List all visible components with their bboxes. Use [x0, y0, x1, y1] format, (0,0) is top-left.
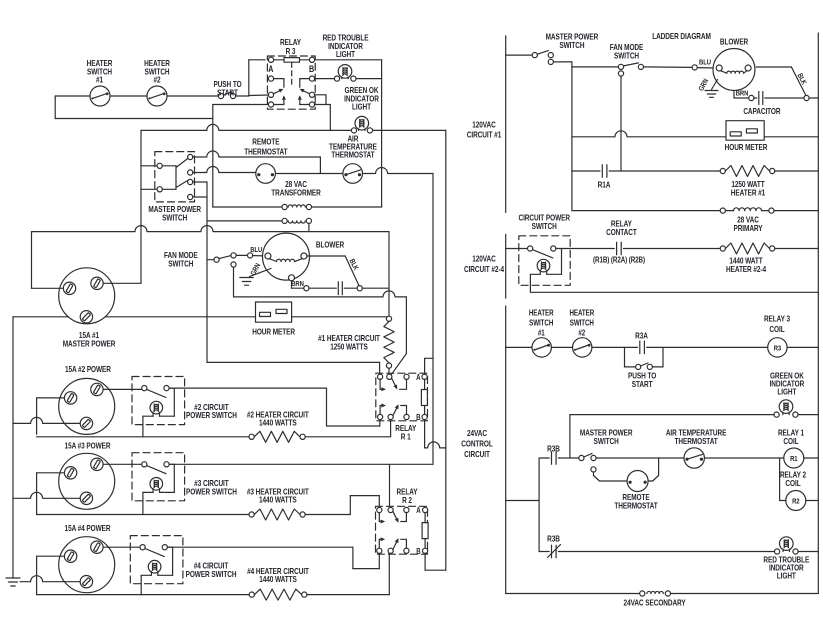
- svg-text:#2: #2: [578, 329, 585, 338]
- label #2 CIRCUIT POWER SWITCH: [186, 402, 237, 420]
- wire: [104, 546, 139, 548]
- svg-text:#2: #2: [153, 75, 160, 85]
- label A: [268, 64, 273, 74]
- label RED TROUBLE INDICATOR LIGHT: [323, 33, 369, 60]
- wire: [405, 297, 407, 354]
- svg-text:THERMOSTAT: THERMOSTAT: [244, 147, 288, 157]
- label LADDER DIAGRAM: [652, 31, 711, 41]
- label MASTER POWER SWITCH (ladder3): [580, 428, 633, 446]
- svg-text:CONTROL: CONTROL: [461, 438, 493, 448]
- wire: [212, 105, 214, 208]
- master power switch (ladder): [506, 51, 572, 65]
- label RELAY CONTACT: [606, 219, 637, 237]
- svg-text:SWITCH: SWITCH: [168, 258, 193, 268]
- relay R1 resistor: [421, 379, 427, 414]
- svg-text:THERMOSTAT: THERMOSTAT: [331, 150, 375, 160]
- svg-text:CONTACT: CONTACT: [606, 227, 637, 237]
- wire: [373, 129, 446, 131]
- svg-text:SWITCH: SWITCH: [614, 50, 639, 60]
- label PUSH TO START: [213, 79, 241, 97]
- svg-text:120VAC: 120VAC: [472, 119, 496, 129]
- power plug 15A #4: [59, 537, 115, 593]
- svg-text:REMOTE: REMOTE: [252, 137, 279, 147]
- ladder right rail: [817, 33, 819, 594]
- power plug 15A #3: [59, 453, 115, 509]
- label PUSH TO START: [628, 371, 656, 389]
- svg-text:1440 WATTS: 1440 WATTS: [259, 574, 297, 584]
- svg-text:PRIMARY: PRIMARY: [733, 223, 762, 233]
- svg-text:THERMOSTAT: THERMOSTAT: [614, 500, 658, 510]
- wire #3 switch output: [170, 463, 433, 465]
- contact R1A rung: [572, 165, 720, 178]
- relay 3 coil R3: [768, 338, 819, 357]
- #1 heater resistor: [384, 316, 394, 368]
- label HEATER SWITCH #2 (ladder): [569, 309, 594, 338]
- wire: [620, 76, 622, 171]
- wire: [275, 157, 343, 174]
- #2 heater resistor: [37, 431, 391, 442]
- heater switch #2: [147, 86, 167, 106]
- wire: [169, 387, 326, 389]
- relay R1 contacts A: [378, 374, 428, 391]
- svg-text:R 1: R 1: [401, 431, 411, 441]
- svg-text:BRN: BRN: [291, 280, 304, 288]
- label B: [309, 64, 314, 74]
- svg-text:POWER SWITCH: POWER SWITCH: [186, 487, 237, 497]
- contact R3B: [539, 452, 579, 465]
- 28 VAC primary rung: [572, 208, 818, 213]
- push to start branch: [625, 347, 664, 369]
- wire long 24v feed: [141, 124, 351, 130]
- wire: [0, 0, 1, 1]
- svg-text:BLOWER: BLOWER: [720, 37, 749, 47]
- heater switch #2 (ladder): [551, 338, 592, 357]
- label FAN MODE SWITCH: [164, 250, 198, 268]
- relay 2 coil R2: [786, 491, 819, 511]
- label (R1B)(R2A)(R2B): [593, 256, 646, 265]
- ground symbol: [6, 578, 20, 586]
- wire BRN: [289, 275, 310, 291]
- svg-text:R3: R3: [774, 345, 782, 353]
- svg-text:R 2: R 2: [402, 495, 412, 505]
- wire: [104, 282, 141, 284]
- ladder left rail seg1: [505, 36, 507, 213]
- label HOUR METER: [725, 142, 768, 152]
- wire: [315, 95, 326, 105]
- wire: [13, 417, 80, 423]
- wire: [13, 316, 256, 318]
- svg-text:LIGHT: LIGHT: [777, 386, 796, 396]
- wire: [37, 473, 64, 515]
- svg-text:LIGHT: LIGHT: [352, 102, 371, 112]
- label RELAY R3: [280, 37, 301, 56]
- svg-text:R3B: R3B: [547, 444, 560, 454]
- svg-text:R1: R1: [790, 455, 798, 463]
- label BRN: [736, 90, 749, 98]
- relay R3 link: [0, 0, 1, 1]
- svg-text:R2: R2: [792, 498, 800, 506]
- svg-text:BRN: BRN: [736, 90, 749, 98]
- svg-text:SWITCH: SWITCH: [532, 221, 557, 231]
- wire: [32, 226, 390, 232]
- wire: [432, 174, 434, 465]
- wire: [315, 59, 382, 61]
- wire: [104, 388, 142, 390]
- svg-text:BLU: BLU: [250, 246, 262, 254]
- wire blower box bottom: [234, 291, 407, 297]
- wire hour meter rung: [572, 131, 726, 137]
- wire: [388, 232, 390, 316]
- wire: [506, 458, 539, 552]
- svg-text:24VAC: 24VAC: [467, 428, 488, 438]
- 1250 watt heater #1: [720, 166, 818, 177]
- wire: [55, 118, 213, 120]
- label 15A #3 POWER: [65, 441, 112, 451]
- svg-text:LIGHT: LIGHT: [777, 571, 796, 581]
- label #2 HEATER CIRCUIT 1440 WATTS: [247, 409, 309, 427]
- red trouble indicator light: [334, 65, 356, 82]
- green ok light (ladder): [570, 400, 818, 417]
- wire: [390, 420, 392, 437]
- relay R3 contacts left: [268, 76, 286, 107]
- fan mode switch: [207, 253, 236, 267]
- green ok indicator light: [351, 116, 372, 133]
- label 1440 WATT HEATER #2-4: [726, 256, 767, 274]
- label HOUR METER: [252, 327, 295, 337]
- label HEATER SWITCH #2: [144, 58, 170, 85]
- label 24VAC SECONDARY: [624, 598, 686, 608]
- label BLK: [795, 72, 807, 86]
- power plug 15A #2: [59, 378, 115, 434]
- label BLOWER: [316, 240, 345, 250]
- svg-text:1250 WATTS: 1250 WATTS: [330, 341, 368, 351]
- label BLU: [699, 59, 711, 67]
- master power switch: [157, 154, 193, 199]
- svg-text:HEATER #2-4: HEATER #2-4: [726, 264, 767, 274]
- 1440 watt heater #2-4: [720, 243, 818, 254]
- label BLOWER: [720, 37, 749, 47]
- wire: [20, 576, 80, 582]
- label HEATER SWITCH #1: [87, 58, 113, 85]
- svg-text:BLK: BLK: [795, 72, 807, 86]
- label REMOTE THERMOSTAT: [244, 137, 288, 157]
- label 1250 WATT HEATER #1: [731, 179, 765, 197]
- air temperature thermostat: [343, 164, 363, 184]
- svg-text:R3B: R3B: [547, 534, 560, 544]
- svg-text:THERMOSTAT: THERMOSTAT: [675, 436, 719, 446]
- heater switch #1: [90, 86, 110, 106]
- label 15A #2 POWER: [65, 364, 112, 374]
- wire: [315, 105, 331, 131]
- relay R3 contacts right: [298, 76, 315, 107]
- wire: [363, 168, 434, 174]
- wire: [13, 492, 80, 498]
- label BLK: [347, 258, 359, 272]
- wire: [206, 182, 208, 362]
- wire: [764, 136, 818, 138]
- wire: [193, 167, 256, 173]
- circuit power switch (ladder) box: [519, 236, 570, 285]
- wire: [207, 362, 380, 374]
- svg-text:LADDER DIAGRAM: LADDER DIAGRAM: [652, 31, 711, 41]
- label CAPACITOR: [743, 106, 781, 116]
- wire: [389, 354, 406, 376]
- relay R2 box: [376, 506, 428, 554]
- svg-text:R3A: R3A: [635, 331, 648, 341]
- remote thermostat: [256, 164, 276, 184]
- svg-text:LIGHT: LIGHT: [336, 49, 355, 59]
- svg-text:B: B: [309, 64, 314, 74]
- svg-text:HEATER: HEATER: [529, 309, 554, 318]
- label MASTER POWER SWITCH: [546, 32, 599, 50]
- hour meter: [256, 302, 292, 322]
- wire: [327, 388, 380, 426]
- label B: [416, 413, 420, 422]
- fan mode switch (ladder): [572, 63, 644, 76]
- svg-text:24VAC SECONDARY: 24VAC SECONDARY: [624, 598, 686, 608]
- wire BRN (ladder): [734, 91, 754, 101]
- svg-text:CAPACITOR: CAPACITOR: [743, 106, 781, 116]
- wire: [780, 458, 786, 501]
- label HEATER SWITCH #1 (ladder): [529, 309, 554, 338]
- svg-text:1440 WATTS: 1440 WATTS: [259, 418, 297, 428]
- svg-text:POWER SWITCH: POWER SWITCH: [186, 410, 237, 420]
- label AIR TEMPERATURE THERMOSTAT: [329, 134, 377, 160]
- svg-text:R1A: R1A: [598, 179, 611, 189]
- wire: [32, 287, 63, 289]
- master power switch (ladder3): [579, 453, 683, 472]
- wire: [644, 65, 717, 70]
- label #4 CIRCUIT POWER SWITCH: [186, 561, 237, 580]
- label R1A: [598, 179, 611, 189]
- relay R3 box: [267, 56, 315, 109]
- wire: [31, 232, 33, 289]
- svg-text:COIL: COIL: [769, 324, 785, 334]
- label 15A #1 MASTER POWER: [63, 330, 116, 348]
- label RELAY 1 COIL: [778, 428, 804, 446]
- wire: [362, 287, 389, 289]
- relay R1 box: [376, 373, 428, 421]
- relay 1 coil R1: [704, 448, 818, 468]
- transformer primary: [213, 204, 382, 209]
- label A: [416, 373, 420, 382]
- wire: [55, 95, 218, 97]
- wire section2 return: [530, 291, 818, 293]
- relay contact (R1B R2A R2B): [562, 242, 721, 255]
- wire: [350, 496, 379, 515]
- push-to-start switch PB1: [218, 92, 268, 99]
- remote thermostat branch: [594, 458, 659, 481]
- transformer secondary: [207, 218, 312, 231]
- svg-text:GRN: GRN: [250, 262, 263, 277]
- wire: [571, 62, 573, 211]
- wire: [388, 553, 390, 594]
- wire: [37, 398, 64, 434]
- svg-text:120VAC: 120VAC: [472, 253, 496, 263]
- label RELAY 2 COIL: [780, 470, 806, 488]
- svg-text:BLU: BLU: [699, 59, 711, 67]
- label 28 VAC TRANSFORMER: [271, 179, 321, 197]
- wire: [425, 553, 446, 570]
- svg-text:SWITCH: SWITCH: [570, 319, 594, 328]
- label 15A #4 POWER: [65, 523, 112, 533]
- svg-text:START: START: [217, 87, 238, 97]
- svg-text:HEATER #1: HEATER #1: [731, 187, 765, 197]
- svg-text:15A #4 POWER: 15A #4 POWER: [65, 523, 112, 533]
- 24vac secondary rail: [506, 591, 819, 596]
- blower: [263, 233, 310, 280]
- label R3A: [635, 331, 648, 341]
- svg-text:BLK: BLK: [347, 258, 359, 272]
- svg-text:SWITCH: SWITCH: [529, 319, 553, 328]
- svg-text:B: B: [416, 413, 420, 422]
- label 24VAC CONTROL CIRCUIT: [461, 428, 493, 459]
- wire: [213, 104, 269, 106]
- relay R3 coil: [268, 57, 314, 86]
- svg-text:RELAY 3: RELAY 3: [764, 313, 790, 323]
- svg-text:MASTER POWER: MASTER POWER: [63, 338, 116, 348]
- wire: [249, 60, 265, 96]
- svg-text:(R1B) (R2A) (R2B): (R1B) (R2A) (R2B): [593, 256, 646, 265]
- wire: [356, 78, 382, 80]
- relay R2 contacts B: [377, 537, 428, 553]
- right bus: [445, 130, 447, 570]
- svg-text:COIL: COIL: [785, 478, 801, 488]
- contact R3A: [592, 341, 768, 354]
- circuit power switch #3: [132, 453, 185, 515]
- label GREEN OK INDICATOR LIGHT (ladder): [770, 370, 805, 396]
- svg-text:CIRCUIT: CIRCUIT: [464, 449, 490, 459]
- wire BLK (ladder): [756, 67, 818, 98]
- svg-text:HEATER: HEATER: [569, 309, 594, 318]
- label MASTER POWER SWITCH: [148, 204, 201, 222]
- svg-text:CIRCUIT #2-4: CIRCUIT #2-4: [464, 264, 505, 274]
- svg-text:SWITCH: SWITCH: [594, 436, 619, 446]
- label BLU: [250, 246, 262, 254]
- wire BLK: [307, 256, 359, 286]
- svg-text:HOUR METER: HOUR METER: [725, 142, 768, 152]
- hour meter (ladder): [726, 121, 764, 141]
- wire: [0, 0, 1, 1]
- label A: [416, 506, 420, 515]
- label RELAY R2: [397, 487, 418, 505]
- #3 heater resistor: [37, 509, 351, 520]
- wire: [236, 253, 265, 258]
- svg-text:TRANSFORMER: TRANSFORMER: [271, 187, 321, 197]
- label GRN: [698, 78, 711, 93]
- label RED TROUBLE INDICATOR LIGHT (ladder): [763, 555, 809, 581]
- wire #4 switch output: [167, 547, 379, 568]
- svg-text:#1: #1: [96, 75, 103, 85]
- ground GRN: [240, 269, 271, 286]
- label FAN MODE SWITCH: [610, 42, 644, 60]
- blower (ladder): [713, 49, 755, 91]
- svg-text:1440 WATTS: 1440 WATTS: [259, 495, 297, 505]
- svg-text:A: A: [416, 506, 420, 515]
- #4 heater resistor: [37, 589, 390, 600]
- label REMOTE THERMOSTAT (ladder): [614, 492, 658, 510]
- wire: [381, 60, 383, 207]
- svg-text:A: A: [268, 64, 273, 74]
- ground bus: [12, 317, 14, 578]
- svg-text:#1: #1: [538, 329, 545, 338]
- red trouble light (ladder): [775, 537, 819, 554]
- wire: [141, 166, 157, 190]
- svg-text:SWITCH: SWITCH: [162, 212, 187, 222]
- label 120VAC CIRCUIT #1: [467, 119, 501, 139]
- svg-text:CIRCUIT #1: CIRCUIT #1: [467, 129, 501, 139]
- label 120VAC CIRCUIT #2-4: [464, 253, 505, 274]
- label R3B (lower): [547, 534, 560, 544]
- wire: [37, 556, 64, 594]
- capacitor: [309, 282, 362, 295]
- contact R3B NC: [539, 545, 774, 558]
- wire: [292, 316, 389, 318]
- wire: [425, 420, 446, 448]
- svg-text:A: A: [416, 373, 420, 382]
- label CIRCUIT POWER SWITCH: [518, 213, 570, 231]
- wire: [193, 151, 321, 157]
- label #3 CIRCUIT POWER SWITCH: [186, 478, 237, 497]
- svg-text:HOUR METER: HOUR METER: [252, 327, 295, 337]
- power plug 15A #1: [59, 268, 115, 324]
- svg-text:15A #3 POWER: 15A #3 POWER: [65, 441, 112, 451]
- ground GRN (ladder): [705, 80, 718, 98]
- wire: [425, 358, 433, 374]
- svg-text:15A #2 POWER: 15A #2 POWER: [65, 364, 112, 374]
- label #1 HEATER CIRCUIT 1250 WATTS: [318, 333, 380, 351]
- label B: [416, 547, 420, 556]
- relay R1 contacts B: [378, 404, 428, 420]
- master power switch box: [155, 152, 195, 202]
- svg-text:B: B: [416, 547, 420, 556]
- wire: [569, 415, 571, 458]
- circuit power switch (ladder): [506, 246, 562, 292]
- svg-text:COIL: COIL: [783, 436, 799, 446]
- label BRN: [291, 280, 304, 288]
- air temperature thermostat (ladder): [684, 448, 704, 468]
- wire: [193, 182, 207, 197]
- label RELAY 3 COIL: [764, 313, 790, 334]
- wire: [140, 130, 142, 283]
- svg-text:BLOWER: BLOWER: [316, 240, 345, 250]
- svg-text:SWITCH: SWITCH: [559, 40, 584, 50]
- circuit power switch #4: [130, 536, 183, 595]
- wire: [54, 96, 56, 119]
- label #3 HEATER CIRCUIT 1440 WATTS: [247, 486, 309, 504]
- label RELAY R1: [395, 423, 416, 441]
- wire: [104, 463, 142, 465]
- remote thermostat (ladder): [627, 471, 648, 492]
- wire: [233, 267, 235, 297]
- ladder left rail seg2: [505, 234, 507, 298]
- label R3B: [547, 444, 560, 454]
- heater switch #1 (ladder): [506, 338, 552, 357]
- wire: [389, 464, 391, 507]
- wire: [315, 78, 335, 80]
- circuit power switch #2: [132, 377, 185, 437]
- label AIR TEMPERATURE THERMOSTAT (ladder): [666, 428, 727, 446]
- svg-text:POWER SWITCH: POWER SWITCH: [186, 569, 237, 579]
- label GRN: [250, 262, 263, 277]
- capacitor (ladder): [754, 92, 809, 105]
- relay R2 resistor: [422, 513, 428, 549]
- label #4 HEATER CIRCUIT 1440 WATTS: [247, 566, 309, 584]
- svg-text:R 3: R 3: [286, 46, 296, 56]
- ladder left rail seg3: [505, 306, 507, 594]
- label 28 VAC PRIMARY: [733, 215, 762, 233]
- svg-text:START: START: [632, 379, 653, 389]
